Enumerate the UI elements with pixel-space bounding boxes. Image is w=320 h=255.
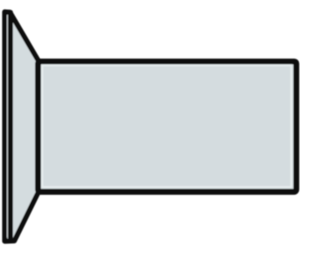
countersunk head (cone, side view) xyxy=(5,12,39,241)
inner halo along shank edges xyxy=(42,65,291,187)
head face highlight sliver xyxy=(7,15,8,238)
head face inner rim line xyxy=(8,12,13,237)
rivet shank (body) xyxy=(38,62,296,192)
